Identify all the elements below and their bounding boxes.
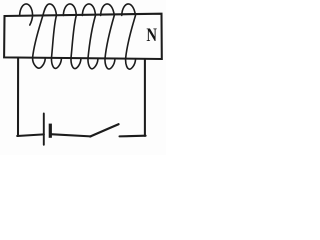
svg-text:N: N [146, 25, 157, 46]
